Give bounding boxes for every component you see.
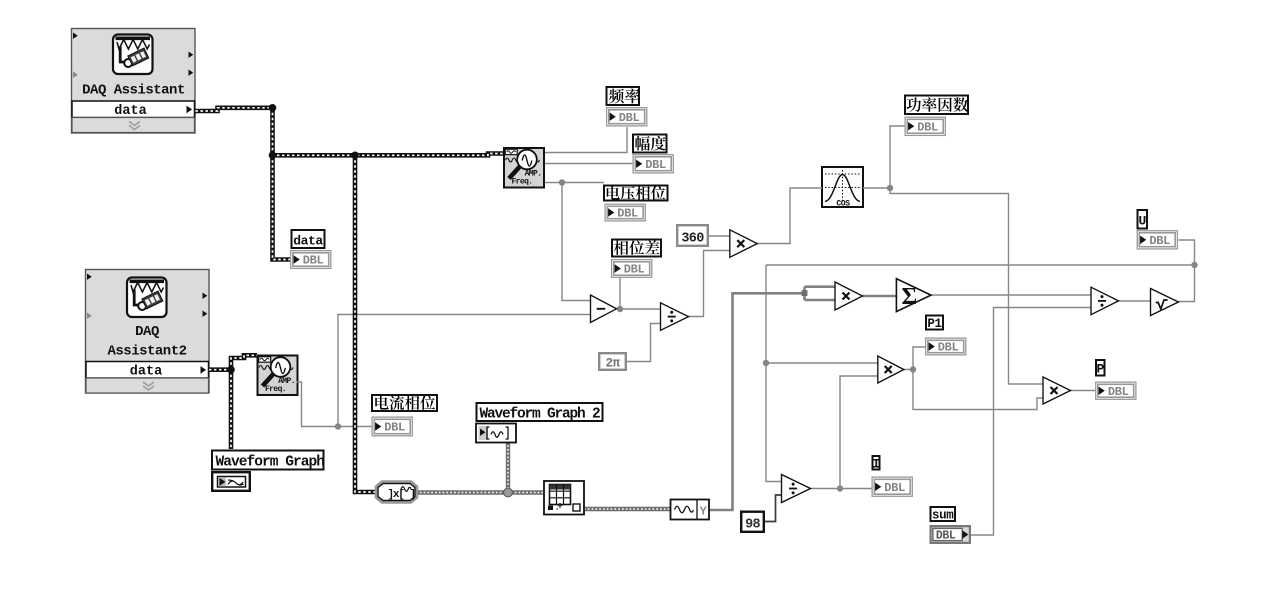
junction: dynamic J3	[351, 152, 359, 160]
svg-text:DBL: DBL	[303, 254, 324, 268]
Tone Measurements VI U3 (AMP/Freq)	[504, 148, 544, 188]
wire: sum of squares to divide U	[931, 294, 1091, 296]
svg-text:]: ]	[410, 489, 415, 501]
wire: U bus horizontal	[766, 264, 1195, 266]
wire: build table to get Y	[584, 507, 670, 511]
constant 360	[677, 225, 708, 246]
constant 98	[741, 512, 764, 533]
junction: dynamic J2	[269, 152, 277, 160]
DBL indicator: I	[872, 477, 912, 496]
wire: dynamic data down	[270, 108, 275, 156]
junction: hatched J5	[504, 488, 513, 497]
junction: I node	[837, 485, 843, 491]
DBL indicator: 频率	[607, 108, 647, 126]
svg-text:DBL: DBL	[624, 263, 645, 277]
multiply node A10 (P=P1*cos)	[1043, 377, 1071, 404]
sum elements node A5	[896, 279, 931, 312]
label: 幅度	[633, 135, 667, 153]
junction: U branch	[763, 360, 769, 366]
label: P1	[926, 316, 943, 332]
wire: sum control to divide U	[969, 308, 1092, 536]
DBL control: sum	[931, 526, 970, 543]
svg-text:DBL: DBL	[884, 481, 905, 495]
wire: power factor to P multiply	[890, 188, 1043, 384]
DBL indicator: 功率因数	[905, 117, 945, 135]
svg-text:DBL: DBL	[384, 421, 405, 435]
divide node A8 (U)	[1091, 287, 1119, 315]
svg-text:I: I	[872, 458, 879, 472]
multiply node A3 (x360)	[730, 230, 758, 257]
junction: voltage phase	[559, 179, 565, 185]
wire: dynamic data to U3	[272, 154, 503, 156]
svg-text:DBL: DBL	[1149, 234, 1170, 248]
DBL indicator: 电流相位	[372, 417, 412, 436]
divide node A7 (I=U/98)	[782, 475, 811, 503]
divide node A2	[661, 303, 689, 331]
svg-text:Waveform Graph: Waveform Graph	[216, 455, 325, 471]
svg-text:Assistant2: Assistant2	[107, 344, 186, 360]
wire: 2pi constant to divide	[627, 324, 661, 362]
wire: voltage phase branch to subtract	[562, 183, 591, 301]
svg-text:sum: sum	[932, 509, 954, 523]
svg-text:P: P	[1097, 362, 1105, 377]
wire: multiply output to cos	[757, 188, 822, 244]
wire: divide I output to I DBL	[811, 488, 872, 490]
wire: dynamic data to data DBL	[273, 155, 291, 259]
get waveform components node U8 (Y)	[671, 500, 710, 520]
wire: cos output to junction	[863, 187, 890, 189]
wire: DAQ2 to U4 stair	[231, 355, 257, 369]
svg-text:DBL: DBL	[619, 111, 640, 125]
junction: phase difference	[617, 306, 623, 312]
junction: current phase	[335, 423, 341, 429]
svg-text:Σ: Σ	[902, 284, 918, 310]
wire: I branch up to P1 multiply	[840, 376, 878, 489]
label: 电流相位	[372, 395, 437, 411]
multiply node A6 (P1=U*I)	[878, 356, 904, 383]
svg-text:COS: COS	[836, 200, 850, 209]
wire: P1 output junction to P1 DBL	[903, 347, 925, 370]
svg-text:DAQ Assistant: DAQ Assistant	[82, 83, 185, 99]
label: 相位差	[612, 240, 661, 257]
label: data (indicator)	[292, 230, 325, 249]
wire: power factor to 功率因数 DBL	[890, 126, 905, 188]
label: 功率因数	[905, 96, 968, 115]
wire: amplitude output to 幅度 DBL	[545, 163, 633, 165]
junction: P1 node	[910, 366, 916, 372]
wire: squared array to sum	[863, 295, 897, 298]
junction: U node	[1191, 262, 1197, 268]
junction: array split	[802, 290, 808, 296]
svg-text:98: 98	[745, 518, 760, 533]
subtract node A1	[591, 295, 617, 323]
label: 频率	[607, 87, 640, 105]
cosine function U5	[822, 167, 863, 209]
DBL indicator: P	[1096, 382, 1136, 399]
label: P	[1096, 360, 1105, 377]
wire: 98 constant to divide I	[765, 495, 782, 522]
svg-text:U: U	[1139, 214, 1146, 229]
wire: divide U output to sqrt	[1119, 300, 1151, 302]
svg-text:360: 360	[681, 232, 704, 247]
wire: DAQ2 data output	[209, 367, 231, 372]
label: Waveform Graph	[212, 451, 324, 471]
svg-text:DBL: DBL	[938, 341, 959, 355]
DBL indicator: P1	[926, 338, 966, 355]
label: Waveform Graph 2	[477, 403, 603, 423]
svg-text:data: data	[130, 364, 162, 379]
junction: dynamic J1	[269, 104, 277, 112]
wire: freq output to 频率 DBL	[545, 127, 627, 153]
DAQ Assistant express VI U1	[72, 29, 196, 134]
multiply node A4 (squarer)	[835, 282, 863, 310]
Waveform Graph terminal T1	[212, 472, 250, 491]
wire: phase output to 电压相位 DBL	[545, 182, 604, 184]
Tone Measurements VI U4 (AMP/Freq)	[258, 356, 298, 396]
wire: U4 phase output down	[297, 382, 372, 427]
wire: sqrt output up to U bus	[1178, 265, 1194, 302]
svg-text:]x[: ]x[	[388, 489, 405, 501]
svg-text:DBL: DBL	[936, 530, 956, 543]
wire: subtract output to divide	[616, 308, 661, 310]
wire: divide output to multiply	[688, 251, 730, 317]
square root node A9	[1151, 289, 1179, 316]
wire: branch up to Waveform Graph 2	[506, 443, 510, 493]
wire: array branch into squarer inputs	[805, 287, 836, 300]
svg-text:data: data	[293, 234, 323, 249]
convert from dynamic data U6	[376, 482, 417, 503]
wire: P1 branch to P multiply	[913, 370, 1043, 410]
wire: P multiply output to P DBL	[1071, 390, 1095, 392]
DBL indicator: 电压相位	[605, 204, 645, 221]
svg-text:Freq.: Freq.	[265, 385, 286, 394]
svg-text:DBL: DBL	[617, 207, 638, 221]
wire: DAQ1 data output	[196, 108, 273, 111]
constant 2pi	[599, 353, 626, 370]
wire: current phase branch up to subtract	[338, 315, 591, 427]
Waveform Graph 2 terminal T2	[476, 424, 516, 443]
svg-text:2π: 2π	[605, 357, 620, 371]
wire: dynamic data main vertical	[355, 155, 377, 492]
svg-text:P1: P1	[927, 317, 941, 331]
svg-text:Freq.: Freq.	[511, 178, 532, 187]
svg-text:DBL: DBL	[917, 120, 938, 134]
wire: U branch to P1 multiply	[766, 362, 878, 364]
DAQ Assistant2 express VI U2	[86, 270, 210, 394]
wire: U bus down to divide I	[766, 265, 782, 482]
svg-text:DBL: DBL	[645, 158, 666, 172]
svg-text:Waveform Graph 2: Waveform Graph 2	[480, 407, 601, 423]
wire: 360 constant to multiply	[709, 235, 730, 237]
svg-text:DBL: DBL	[1108, 385, 1129, 399]
DBL indicator: data	[291, 251, 331, 269]
label: I	[872, 456, 879, 472]
DBL indicator: 幅度	[633, 155, 673, 173]
wire: U DBL connection	[1179, 240, 1195, 265]
wire: DAQ2 down to Waveform Graph	[229, 370, 234, 449]
svg-text:DAQ: DAQ	[135, 324, 159, 340]
wire: Y array up to squarer	[709, 293, 805, 510]
svg-text:data: data	[114, 104, 146, 119]
junction: dynamic J4	[227, 366, 235, 374]
label: sum	[931, 507, 956, 523]
wire: phase difference branch to 相位差 DBL	[619, 276, 621, 309]
junction: power factor	[887, 185, 893, 191]
DBL indicator: 相位差	[612, 260, 652, 278]
build table node U7	[544, 481, 584, 515]
DBL indicator: U	[1137, 231, 1177, 249]
label: U	[1138, 210, 1148, 229]
label: 电压相位	[604, 186, 668, 201]
wire: converted array to build table	[416, 490, 543, 494]
